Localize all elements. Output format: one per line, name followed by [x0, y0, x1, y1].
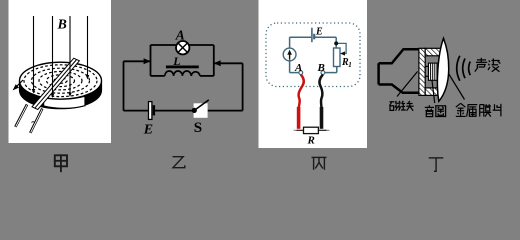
svg-text:A: A [175, 28, 185, 43]
svg-text:E: E [315, 27, 323, 38]
svg-text:R: R [307, 134, 315, 146]
svg-text:1: 1 [348, 61, 352, 69]
svg-text:E: E [143, 122, 153, 137]
svg-text:B: B [57, 18, 67, 33]
svg-text:B: B [317, 62, 325, 74]
svg-text:A: A [294, 62, 302, 74]
svg-text:S: S [194, 120, 202, 136]
svg-text:L: L [172, 54, 180, 68]
